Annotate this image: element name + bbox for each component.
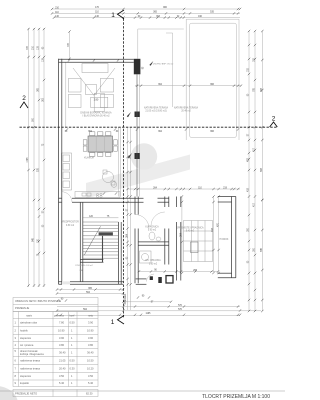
round table	[103, 172, 114, 183]
svg-text:82.30: 82.30	[86, 392, 93, 396]
svg-text:stepenice: stepenice	[20, 374, 32, 378]
svg-text:36.40: 36.40	[59, 351, 66, 355]
svg-text:5.90 m2: 5.90 m2	[148, 230, 157, 232]
hodnik C wall	[231, 197, 233, 278]
window in bottom wall	[62, 281, 70, 285]
svg-text:PRIZEMLJE: PRIZEMLJE	[15, 306, 30, 310]
svg-text:5.40 m2: 5.40 m2	[186, 231, 195, 233]
svg-text:PRESJEK: PRESJEK	[125, 293, 127, 304]
area calculation table	[13, 298, 98, 397]
svg-text:3.80 m2: 3.80 m2	[66, 225, 75, 227]
svg-text:STUBISTE 4.40 m2: STUBISTE 4.40 m2	[75, 265, 93, 267]
svg-text:3.80: 3.80	[88, 343, 94, 347]
svg-text:PRIZEMLJE NETO: PRIZEMLJE NETO	[15, 392, 37, 396]
svg-text:TLOCRT PRIZEMLJA M 1:100: TLOCRT PRIZEMLJA M 1:100	[202, 394, 270, 400]
bottom wall left wing	[59, 281, 124, 283]
svg-text:kupatilo: kupatilo	[20, 381, 29, 385]
svg-text:3.80 m2: 3.80 m2	[149, 264, 158, 266]
footer title strip	[0, 390, 285, 392]
svg-text:3.50: 3.50	[59, 374, 65, 378]
kitchen tall units	[62, 153, 72, 190]
second right wall	[175, 197, 177, 208]
dashed section lines	[20, 19, 278, 319]
right vertical dim lines	[248, 31, 250, 311]
washing machine	[191, 242, 199, 253]
bathroom mid wall	[138, 241, 169, 243]
svg-text:neto: neto	[88, 314, 94, 318]
svg-text:natkrivena terasa: natkrivena terasa	[20, 359, 40, 363]
bottom dim lines	[57, 306, 240, 308]
furniture	[62, 64, 213, 264]
svg-text:5.40: 5.40	[88, 381, 94, 385]
svg-text:10.20: 10.20	[87, 367, 94, 371]
svg-text:3.50: 3.50	[88, 374, 94, 378]
dim line above right rooms	[127, 188, 240, 190]
exterior and interior walls	[59, 59, 236, 284]
left wall	[58, 59, 60, 284]
bathroom fixtures	[149, 232, 155, 240]
svg-text:NATKRIVENA TERASA: NATKRIVENA TERASA	[144, 107, 169, 110]
svg-text:5.40: 5.40	[59, 381, 65, 385]
svg-text:KUHINJA: KUHINJA	[84, 157, 94, 160]
svg-text:NATKRIVENA TERASA: NATKRIVENA TERASA	[174, 107, 199, 110]
svg-text:3.90: 3.90	[88, 321, 94, 325]
svg-text:2: 2	[272, 116, 276, 123]
dining table with chairs	[83, 132, 117, 157]
svg-text:21.05 m2 (19.80 m2): 21.05 m2 (19.80 m2)	[145, 111, 167, 113]
svg-text:3.90: 3.90	[88, 336, 94, 340]
svg-text:UKUPNO BRP 175 m2: UKUPNO BRP 175 m2	[153, 64, 174, 66]
bottom walls entrance	[136, 278, 147, 280]
svg-text:10.50: 10.50	[87, 359, 94, 363]
top horizontal dim lines	[52, 8, 240, 10]
svg-text:HODNIK: HODNIK	[220, 239, 229, 241]
svg-text:povrsina: povrsina	[54, 314, 64, 318]
covered terrace outline	[138, 19, 239, 140]
svg-text:wc i praona: wc i praona	[20, 343, 34, 347]
svg-text:stepenice: stepenice	[20, 336, 32, 340]
svg-text:1195: 1195	[146, 313, 152, 315]
svg-text:I BLAGOVAONA 36.40 m2: I BLAGOVAONA 36.40 m2	[82, 115, 110, 118]
mid wall y198	[59, 197, 62, 199]
svg-text:PREDPROSTOR: PREDPROSTOR	[61, 222, 79, 224]
top wall	[59, 58, 134, 60]
svg-text:WC I PRAONA: WC I PRAONA	[145, 259, 161, 262]
svg-text:2: 2	[22, 95, 26, 102]
svg-text:2.80: 2.80	[94, 100, 99, 102]
living room	[82, 64, 108, 73]
svg-text:20.40: 20.40	[59, 367, 66, 371]
door swing arcs	[62, 192, 165, 282]
svg-text:hodnik: hodnik	[20, 329, 28, 333]
inner vertical dim lines right of section	[127, 128, 129, 311]
mid dim lines under left wing	[57, 289, 124, 291]
svg-text:kuhinja i blagovaona: kuhinja i blagovaona	[20, 352, 44, 356]
svg-text:10.90: 10.90	[87, 329, 94, 333]
svg-text:koef: koef	[70, 314, 75, 318]
svg-text:10.90: 10.90	[58, 329, 65, 333]
svg-text:0.50: 0.50	[70, 321, 76, 325]
svg-text:1: 1	[111, 319, 115, 326]
svg-text:0.50: 0.50	[70, 359, 76, 363]
svg-text:36.40: 36.40	[87, 351, 94, 355]
svg-text:20.40 m2: 20.40 m2	[181, 111, 191, 113]
svg-text:OBRACUN NETO I BRUTO POVRSINE: OBRACUN NETO I BRUTO POVRSINE	[15, 299, 61, 303]
svg-text:SPREMISTE I PRAONICA: SPREMISTE I PRAONICA	[176, 227, 204, 230]
storage shelves right room	[184, 221, 213, 262]
svg-text:21.05: 21.05	[59, 359, 66, 363]
svg-text:3.80: 3.80	[59, 343, 65, 347]
staircase treads	[83, 218, 118, 258]
svg-text:DNEVNI BORAVAK, KUHINJA: DNEVNI BORAVAK, KUHINJA	[80, 112, 112, 115]
stair wall	[117, 222, 119, 284]
left vertical dim lines	[28, 28, 30, 287]
svg-text:KUPAONICA: KUPAONICA	[145, 226, 159, 229]
svg-text:7.80: 7.80	[59, 321, 65, 325]
svg-text:naziv: naziv	[26, 314, 33, 318]
bathroom left wall	[134, 197, 136, 215]
dimension lines	[29, 9, 263, 316]
svg-text:vjetrobran ulaz: vjetrobran ulaz	[20, 321, 38, 325]
svg-text:natkrivena terasa: natkrivena terasa	[20, 367, 40, 371]
kitchen counter	[75, 192, 120, 198]
glass facade line	[136, 74, 138, 196]
svg-text:3.90: 3.90	[59, 336, 65, 340]
svg-text:1745: 1745	[27, 157, 29, 163]
watermark logo	[0, 143, 190, 400]
svg-text:1: 1	[111, 12, 115, 19]
bathroom right wall	[164, 197, 166, 208]
svg-text:0.30: 0.30	[70, 367, 76, 371]
room name labels	[61, 61, 229, 272]
